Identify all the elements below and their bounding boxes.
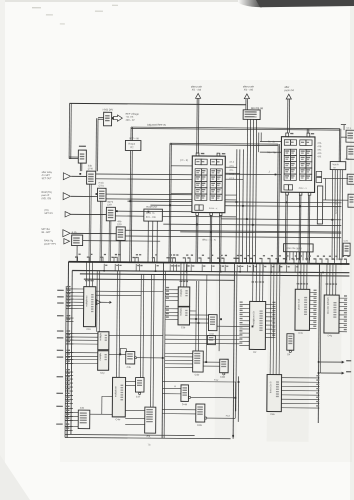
scan tint over drawing area: [60, 80, 352, 462]
bus left drops: [67, 262, 68, 438]
wire J2 to buffer: [71, 195, 97, 197]
ic C4w: [112, 377, 125, 417]
ic U2 bottom pins: [286, 192, 289, 195]
capacitor C78: [343, 243, 350, 256]
ic U1 cell matrix: [195, 169, 201, 175]
ic D2: [249, 301, 265, 349]
output wires U11: [96, 173, 192, 176]
wire from B2 down to bus: [129, 150, 132, 262]
lower-left vertical pair C: [139, 274, 142, 377]
wires C4w mid: [165, 352, 193, 354]
tall box right: [317, 186, 322, 224]
bus line 4: [84, 279, 235, 280]
wires lower middle: [163, 380, 236, 383]
ic D4x: [295, 289, 310, 330]
wires left frame to C1g C1y: [66, 332, 98, 334]
wire J1 to buffer: [71, 175, 86, 177]
right margin box C4b: [347, 146, 354, 159]
ic C8x right pins: [282, 377, 320, 379]
wires U17 pins down: [286, 252, 288, 260]
short link wires middle column: [190, 310, 196, 312]
lower-left vertical pair D: [151, 274, 152, 407]
wire J4 to buffer: [71, 232, 116, 234]
ic D2 left pins: [240, 303, 250, 305]
lower-left vertical pair B: [116, 271, 119, 377]
wires C4d: [190, 318, 209, 320]
ic U1 top cells: [195, 159, 201, 165]
ic C1y: [98, 351, 109, 371]
output wires U12: [106, 193, 192, 196]
wires left frame to C3b: [165, 289, 178, 291]
wire stubs right of SEL: [258, 132, 260, 152]
ic U2 cell matrix: [284, 149, 290, 155]
inner frame left drop: [168, 143, 171, 262]
outer left signal labels: [57, 289, 63, 291]
junction square at HYB output: [112, 117, 114, 119]
wires C1b rows to left frame: [74, 288, 84, 290]
wire J3 to buffer: [71, 213, 106, 215]
wire from A13 down: [79, 163, 81, 171]
ic U2 top cells: [284, 140, 290, 146]
wires from SEL/FB down: [246, 119, 247, 263]
bus junction dots: [89, 261, 91, 263]
svg-text:/W - SET: /W - SET: [41, 232, 51, 234]
wire to right margin boxes: [341, 136, 347, 138]
inner frame right drop: [276, 144, 279, 263]
wires into D2 top: [252, 263, 254, 301]
wire top horizontal net: [70, 103, 246, 104]
middle verticals: [195, 281, 198, 351]
bus line 2: [72, 271, 349, 273]
ic U2 outline: [281, 137, 315, 193]
decoder U17 sel dec: [284, 244, 314, 252]
wire U2 right pad up: [306, 129, 308, 133]
box C4b lower: [78, 410, 90, 429]
output arrow 2: [320, 372, 344, 374]
frame right drop: [338, 129, 340, 162]
svg-text:push? /7YV: push? /7YV: [44, 244, 56, 246]
output wires U14: [125, 230, 341, 232]
wires right margin: [323, 177, 348, 179]
svg-text:/11 SET: /11 SET: [42, 175, 51, 177]
right small boxes pair: [316, 171, 322, 176]
bottom long wires: [65, 434, 195, 435]
wire from P3 down to U2: [287, 99, 289, 133]
scan shade swath B: [317, 264, 342, 374]
short link wires left column: [96, 290, 163, 293]
ic U1 bottom cells: [195, 205, 199, 210]
off-page arrow REF voltage: [113, 115, 122, 121]
junction dots lower: [318, 361, 320, 363]
vertical drop x219: [218, 263, 221, 351]
wires into D4x top: [297, 264, 299, 290]
svg-text:SET /5w: SET /5w: [41, 229, 50, 231]
svg-text:after relay: after relay: [42, 171, 53, 174]
gate C2b: [126, 351, 135, 364]
wires into C1b top: [85, 262, 87, 287]
wires U2 bottom pins down: [284, 195, 287, 263]
ic C3b: [178, 307, 190, 325]
ic U1 bottom pins: [196, 212, 199, 215]
ic D4y: [324, 295, 339, 333]
wire U15 drop to bus: [76, 246, 78, 262]
svg-text:RAM (7G): RAM (7G): [42, 191, 53, 194]
bus line 1: [68, 262, 349, 264]
ic D4x right pins: [310, 291, 317, 293]
junction dots band: [147, 211, 149, 213]
right column divider: [233, 263, 234, 439]
gate C2b output circle: [135, 357, 137, 359]
svg-text:push /P: push /P: [41, 195, 49, 197]
bus pin number ticks: [77, 257, 79, 262]
regulator A13: [79, 145, 86, 147]
right margin box C4a: [346, 130, 354, 142]
bus tick row 2: [103, 264, 105, 271]
gate D1B lower mid: [196, 404, 205, 422]
wires C4w outputs: [126, 380, 136, 382]
svg-text:RAM /7g: RAM /7g: [44, 239, 54, 242]
ic C8x: [267, 375, 282, 412]
output arrow 1: [320, 361, 344, 363]
left pin stubs: [66, 288, 74, 290]
gate C4M: [220, 359, 229, 373]
scan shade swath A: [267, 264, 310, 442]
svg-text:SET /2V: SET /2V: [44, 213, 53, 215]
ic C1g: [98, 332, 109, 350]
gate C4w mid: [193, 351, 204, 372]
right margin box row3: [348, 194, 354, 207]
gate P3L: [145, 407, 156, 433]
bus line 3: [80, 274, 349, 276]
svg-text:(SEL /20): (SEL /20): [41, 198, 51, 200]
svg-text:(7d): (7d): [44, 210, 48, 212]
lower-left vertical pair A: [96, 271, 98, 332]
ic D2 right pins: [266, 304, 276, 306]
wire from HYB DIV to left and down: [98, 117, 103, 119]
inverter with arrow: [96, 300, 101, 305]
wires into D4y top: [326, 264, 328, 295]
long right vertical: [318, 264, 319, 423]
page left edge shading: [0, 0, 5, 500]
gate C4d2: [207, 336, 215, 345]
wire left drop from top net: [68, 103, 70, 158]
ic U2 bottom cells: [284, 185, 288, 190]
wire bundle centre verticals: [235, 149, 238, 263]
gate DW lower mid: [181, 385, 189, 402]
wire from P2 down: [245, 99, 247, 110]
gate C4T: [135, 378, 144, 393]
ic D4y right pins: [339, 297, 347, 299]
wire band horizontals: [127, 200, 191, 203]
inner frame net: [170, 142, 278, 145]
wires U1 bottom pins down: [195, 215, 197, 262]
gate C4d: [208, 315, 217, 331]
ic U1 outline: [192, 156, 225, 213]
frame left drop: [130, 127, 132, 140]
wires into C8x top: [269, 263, 272, 374]
wire drops below row buffers: [88, 184, 91, 262]
wires into C3b top: [180, 263, 182, 287]
ic: [178, 287, 190, 307]
left pin frame: [65, 286, 66, 437]
scan shade swath C: [215, 263, 238, 438]
svg-text:SET OUT: SET OUT: [42, 178, 53, 180]
output wires U13: [115, 210, 191, 213]
wire from P1 down to U1: [196, 98, 198, 153]
wire U15 output: [83, 240, 160, 243]
wires into D2 left pins: [165, 334, 239, 337]
ic U1 top pins: [196, 153, 199, 156]
wires U16 down to bus: [147, 221, 149, 262]
wires from U3 down: [331, 170, 334, 260]
ic C1b: [83, 287, 95, 327]
faint pencil marks top: [32, 7, 41, 9]
wires C4b: [65, 412, 78, 414]
ic U2 top pins: [286, 133, 289, 137]
gate D4 panel: [287, 334, 294, 351]
right margin box row2: [347, 174, 354, 184]
column divider verticals: [162, 263, 163, 439]
wires C2b: [109, 353, 126, 355]
ic U1 left stubs: [171, 165, 192, 167]
ic U1 right stubs: [225, 166, 236, 168]
